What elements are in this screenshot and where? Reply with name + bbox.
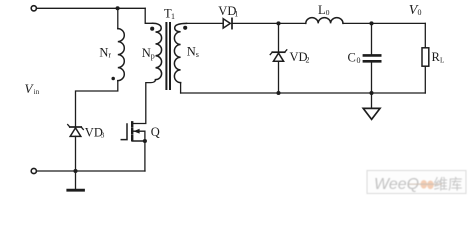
- svg-text:0: 0: [418, 8, 422, 17]
- node junction VD1/VD2/L0: [276, 21, 280, 25]
- svg-text:N: N: [187, 44, 196, 58]
- wire secondary bottom rail: [181, 92, 426, 94]
- wire VD1 cathode to L0: [232, 22, 306, 24]
- terminal Vin+ (top-left): [31, 6, 36, 11]
- inductor L0: [306, 18, 343, 24]
- svg-text:N: N: [142, 46, 151, 60]
- svg-text:0: 0: [326, 8, 330, 17]
- source bar: [133, 140, 145, 142]
- polarity dot of Ns (top): [183, 26, 187, 30]
- wire VD2 anode down to rail: [278, 61, 280, 93]
- wire output corner down to R1: [424, 23, 426, 47]
- svg-text:0: 0: [357, 56, 361, 65]
- node junction rail / ground: [369, 91, 373, 95]
- resistor R1 (load): [422, 48, 429, 66]
- svg-text:Q: Q: [151, 125, 160, 139]
- node junction rail / VD2: [276, 91, 280, 95]
- wire Np bottom to MOSFET drain: [133, 80, 155, 124]
- wire Nr bottom to VD3: [76, 81, 118, 127]
- svg-text:2: 2: [306, 56, 310, 65]
- capacitor C0: [364, 55, 380, 61]
- svg-text:C: C: [348, 50, 356, 64]
- wire bottom-left rail: [37, 170, 145, 172]
- channel dashes: [131, 122, 133, 140]
- wire VD3 anode down to bottom rail: [75, 136, 77, 171]
- transistor Q1 MOSFET: [121, 122, 147, 171]
- transformer T1 core: [166, 23, 170, 89]
- body line with arrow: [133, 131, 145, 141]
- wire junction down to VD2: [278, 23, 280, 51]
- wire top rail from Vin+ terminal to transformer primary corner: [37, 7, 145, 9]
- svg-text:p: p: [151, 52, 155, 61]
- wire junction down to C0: [371, 23, 373, 54]
- watermark WeeQoo box: [367, 171, 466, 194]
- diode VD1 (output rectifier): [223, 18, 232, 28]
- node junction bottom rail / ground: [73, 169, 77, 173]
- wire L0 to output corner: [343, 22, 425, 24]
- wire junction down to Nr winding: [117, 8, 119, 28]
- winding Np (primary of T1): [153, 23, 162, 79]
- svg-text:1: 1: [234, 9, 238, 18]
- wire primary top corner down to Np winding: [145, 8, 152, 23]
- node junction source/body: [143, 139, 147, 143]
- ground (secondary side, open triangle): [371, 93, 373, 108]
- polarity dot of Nr (bottom): [111, 77, 115, 81]
- ground (primary side bar): [75, 171, 77, 189]
- svg-text:N: N: [99, 45, 108, 59]
- svg-text:r: r: [108, 51, 111, 60]
- winding Nr (reset winding of T1): [118, 29, 125, 81]
- node junction L0/C0: [369, 21, 373, 25]
- svg-text:in: in: [34, 88, 40, 96]
- diode VD3 (reset diode, cathode up): [68, 125, 84, 137]
- svg-text:1: 1: [171, 12, 175, 21]
- terminal Vin- (bottom-left): [31, 168, 36, 173]
- svg-text:3: 3: [101, 132, 105, 140]
- svg-text:维库: 维库: [434, 176, 463, 193]
- wire Ns top to VD1 anode: [187, 22, 224, 24]
- winding Ns (secondary of T1): [174, 23, 186, 82]
- wire C0 bottom to rail: [371, 62, 373, 93]
- wire Ns bottom to secondary rail: [180, 83, 182, 93]
- diode VD2 (freewheeling, cathode up): [270, 50, 287, 62]
- wire source down to bottom rail: [144, 141, 146, 171]
- svg-text:L: L: [440, 56, 444, 64]
- wire R1 bottom to rail: [424, 66, 426, 93]
- svg-text:s: s: [196, 50, 199, 59]
- svg-text:L: L: [318, 3, 326, 17]
- node junction top rail / Nr: [116, 6, 120, 10]
- gate lead stub and gate bar: [121, 124, 127, 140]
- polarity dot of Np (top): [150, 27, 154, 31]
